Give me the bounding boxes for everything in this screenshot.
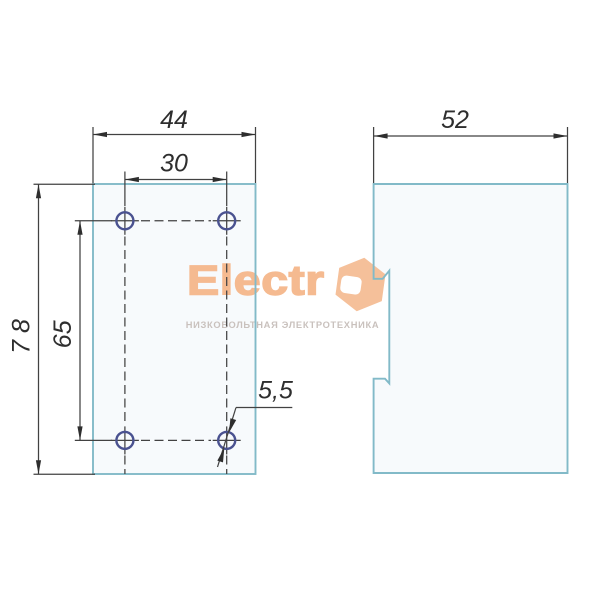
svg-text:30: 30 (160, 150, 188, 178)
svg-text:44: 44 (160, 106, 188, 134)
side view body fill (374, 184, 568, 473)
svg-text:НИЗКОВОЛЬТНАЯ ЭЛЕКТРОТЕХНИКА: НИЗКОВОЛЬТНАЯ ЭЛЕКТРОТЕХНИКА (186, 320, 380, 330)
svg-text:78: 78 (8, 319, 36, 354)
front view body fill (93, 184, 256, 474)
dimension 30 lines (125, 172, 227, 207)
svg-text:65: 65 (49, 320, 77, 348)
dimension 52 lines (374, 127, 568, 183)
mounting hole bottom-left (116, 432, 133, 449)
side view outline (374, 184, 568, 473)
front view outline (93, 184, 256, 474)
mounting hole bottom-right (218, 432, 235, 449)
dimension 65 lines (75, 221, 112, 441)
mounting hole top-left (116, 212, 133, 229)
dimension 44 lines (93, 127, 256, 183)
dimension 52 arrowheads (374, 133, 568, 138)
mounting hole top-right (218, 212, 235, 229)
dimension 78 lines (34, 184, 96, 474)
dimension 44 arrowheads (93, 132, 256, 137)
dimension 30 arrowheads (125, 177, 227, 182)
svg-text:5,5: 5,5 (258, 377, 293, 405)
hole diameter leader lines (218, 408, 293, 468)
dimension 65 arrowheads (77, 221, 82, 441)
hole diameter leader arrowheads (217, 418, 236, 462)
dimension 78 arrowheads (36, 184, 41, 474)
hole center lines dashed (125, 221, 227, 474)
svg-text:52: 52 (441, 106, 469, 134)
watermark hexagon nut o (336, 258, 386, 311)
hole crosshair centerlines (111, 207, 241, 455)
